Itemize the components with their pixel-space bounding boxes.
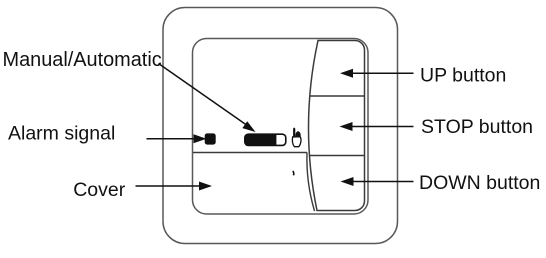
cover top line xyxy=(193,152,307,154)
slider knob xyxy=(245,134,277,145)
manual/automatic arrow xyxy=(159,64,246,125)
up button arrow xyxy=(352,72,414,74)
svg-text:Manual/Automatic: Manual/Automatic xyxy=(3,49,162,71)
svg-text:UP button: UP button xyxy=(420,65,506,87)
cover arrow xyxy=(136,185,202,187)
svg-text:Cover: Cover xyxy=(73,179,126,201)
divider UP/STOP xyxy=(310,95,365,97)
divider STOP/DOWN xyxy=(309,155,364,157)
inner panel xyxy=(193,39,369,215)
svg-text:STOP button: STOP button xyxy=(421,116,533,138)
hand icon xyxy=(292,128,301,147)
alarm signal arrow xyxy=(147,138,197,140)
stop button arrow xyxy=(352,126,414,128)
slider switch body xyxy=(245,134,286,145)
svg-text:DOWN button: DOWN button xyxy=(419,172,540,194)
tick mark xyxy=(292,171,295,175)
svg-text:Alarm signal: Alarm signal xyxy=(8,123,115,145)
outer frame xyxy=(163,8,398,244)
down button arrow xyxy=(353,181,414,183)
alarm signal LED xyxy=(205,133,216,144)
cover right edge xyxy=(307,153,315,212)
button column xyxy=(308,41,364,211)
